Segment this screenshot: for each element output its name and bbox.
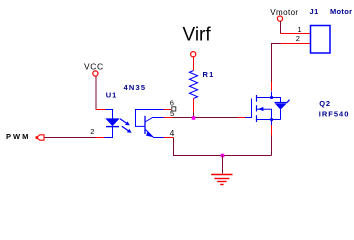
- wire ground stem: [222, 156, 224, 174]
- svg-text:PWM: PWM: [6, 132, 30, 141]
- U1 collector lead: [145, 118, 164, 123]
- U1 pin 4 stub: [164, 137, 174, 139]
- U1 pin 6 no-connect square: [172, 107, 176, 111]
- Q2 drain pin stub: [271, 82, 273, 92]
- terminal Vmotor circle: [277, 16, 282, 21]
- svg-text:4N35: 4N35: [124, 83, 147, 92]
- U1 light arrow 1: [120, 119, 130, 126]
- wire R1 bottom to junction: [193, 99, 195, 113]
- U1 phototransistor base bar: [144, 116, 146, 134]
- Q2 source lead: [257, 119, 281, 121]
- svg-text:2: 2: [90, 127, 94, 136]
- junction node ground: [221, 154, 225, 158]
- U1 base lead from pin6: [136, 110, 164, 127]
- Q2 source junction dot: [270, 118, 273, 121]
- svg-text:IRF540: IRF540: [319, 109, 350, 118]
- wire Virf to R1: [193, 57, 195, 71]
- J1 pin 1: [281, 33, 311, 35]
- U1 pin 2 stub: [96, 137, 105, 139]
- Q2 body diode triangle: [275, 103, 287, 109]
- Q2 channel segment drain: [256, 95, 258, 102]
- ground symbol: [211, 175, 232, 185]
- U1 pin 5 stub: [164, 117, 173, 119]
- svg-text:R1: R1: [203, 70, 215, 79]
- U1 pin 6 stub: [164, 109, 172, 111]
- power VCC terminal circle: [93, 71, 98, 76]
- wire U1 pin4 down and along bottom: [174, 138, 272, 156]
- Q2 channel segment body: [256, 105, 258, 111]
- Q2 substrate arrow: [258, 107, 263, 111]
- Q2 body diode connections: [280, 98, 282, 120]
- Q2 substrate lead with arrow: [257, 109, 272, 119]
- U1 LED anode lead: [106, 110, 113, 120]
- svg-text:Virf: Virf: [183, 25, 212, 46]
- U1 LED cathode bar: [106, 126, 119, 128]
- wire VCC to U1 pin1: [95, 76, 97, 109]
- svg-text:Vmotor: Vmotor: [270, 8, 298, 17]
- junction node R1/gate: [192, 116, 196, 120]
- U1 LED triangle: [106, 119, 119, 126]
- svg-text:VCC: VCC: [84, 62, 104, 72]
- U1 emitter arrow: [146, 131, 153, 137]
- svg-text:4: 4: [170, 128, 175, 138]
- Q2 source pin stub: [271, 120, 273, 126]
- wire Q2 drain up to J1 pin2: [272, 44, 282, 82]
- U1 light arrow 2: [122, 126, 132, 133]
- U1 pin 1 stub: [96, 109, 106, 111]
- connector J1 body: [311, 26, 331, 54]
- svg-text:2: 2: [296, 34, 300, 43]
- Q2 drain junction dot: [270, 96, 273, 99]
- Q2 gate stub: [238, 117, 245, 119]
- Q2 drain lead: [257, 92, 282, 98]
- U1 LED cathode lead: [105, 127, 113, 138]
- Q2 body diode cathode bar with tick: [275, 100, 290, 103]
- svg-text:U1: U1: [106, 91, 118, 100]
- resistor R1 zigzag: [189, 71, 197, 99]
- wire PWM to U1 pin2: [45, 137, 96, 139]
- wire Q2 source to bottom wire: [271, 136, 273, 156]
- J1 pin 2: [281, 43, 311, 45]
- Q2 channel segment source: [256, 115, 258, 122]
- U1 emitter lead: [145, 129, 164, 138]
- wire Vmotor to J1 pin1: [280, 21, 282, 33]
- Q2 gate lead and gate bar: [245, 99, 252, 119]
- svg-text:5: 5: [170, 109, 174, 118]
- svg-text:1: 1: [298, 25, 302, 34]
- svg-text:6: 6: [170, 99, 174, 108]
- svg-text:J1: J1: [310, 7, 319, 16]
- terminal Virf circle: [191, 52, 196, 57]
- svg-text:Motor: Motor: [330, 7, 352, 16]
- svg-text:Q2: Q2: [319, 99, 331, 108]
- port PWM arrow: [37, 135, 45, 140]
- wire U1 pin5 to junction to Q2 gate: [173, 117, 239, 119]
